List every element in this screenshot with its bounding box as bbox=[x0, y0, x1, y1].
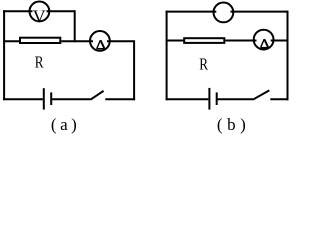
svg-text:(a): (a) bbox=[51, 115, 80, 134]
svg-text:R: R bbox=[35, 53, 44, 72]
wire: circuit (b) resistor to ammeter bbox=[225, 40, 256, 42]
wire: circuit (a) battery to switch pivot bbox=[52, 98, 91, 100]
wire: circuit (a) main wire from left vertical to resistor bbox=[3, 40, 20, 42]
wire: circuit (b) top wire left segment bbox=[166, 11, 217, 13]
battery (a) short plate bbox=[50, 92, 52, 105]
voltmeter circle (b) top, unlabeled bbox=[214, 3, 234, 23]
wire: circuit (b) switch contact to right corner bbox=[270, 98, 288, 100]
wire: circuit (a) voltmeter branch right drop to node between R and ammeter bbox=[74, 10, 76, 42]
wire: circuit (b) bottom left segment to battery bbox=[166, 98, 209, 100]
svg-text:(b): (b) bbox=[217, 115, 250, 134]
wire: circuit (b) battery to switch pivot bbox=[218, 98, 253, 100]
wire: circuit (a) bottom left segment to battery bbox=[3, 98, 43, 100]
switch S2 lever (b) bbox=[253, 90, 269, 99]
ammeter A2 label "A" bbox=[260, 39, 268, 48]
wire: circuit (a) voltmeter branch top-left segment bbox=[3, 10, 32, 12]
wire: circuit (a) switch contact to right corner bbox=[105, 98, 135, 100]
ammeter A2 circle (b) bbox=[254, 30, 274, 50]
battery (a) long plate bbox=[43, 88, 45, 109]
svg-text:R: R bbox=[199, 54, 208, 73]
switch S1 lever (a) bbox=[91, 91, 104, 100]
ammeter A1 label "A" bbox=[96, 40, 105, 49]
wire: circuit (a) ammeter to right vertical bbox=[107, 40, 134, 42]
battery (b) short plate bbox=[216, 92, 218, 105]
svg-text:V: V bbox=[33, 6, 46, 26]
wire: circuit (a) right vertical bbox=[133, 40, 135, 100]
wire: circuit (b) right vertical bbox=[287, 11, 289, 101]
resistor R (b) body bbox=[184, 38, 224, 43]
resistor R (a) body bbox=[20, 38, 60, 43]
wire: circuit (a) voltmeter branch top-right segment bbox=[47, 10, 75, 12]
wire: circuit (b) main wire from left vertical to resistor bbox=[166, 40, 184, 42]
ammeter A1 circle (a) bbox=[90, 31, 110, 51]
battery (b) long plate bbox=[208, 88, 210, 110]
wire: circuit (b) top wire right segment bbox=[231, 11, 288, 13]
wire: circuit (b) ammeter to right vertical bbox=[271, 40, 288, 42]
wire: circuit (a) resistor to ammeter bbox=[61, 40, 93, 42]
wire: circuit (b) left vertical bbox=[166, 11, 168, 101]
voltmeter V1 circle (a) bbox=[30, 2, 50, 22]
wire: circuit (a) left vertical bbox=[3, 10, 5, 100]
